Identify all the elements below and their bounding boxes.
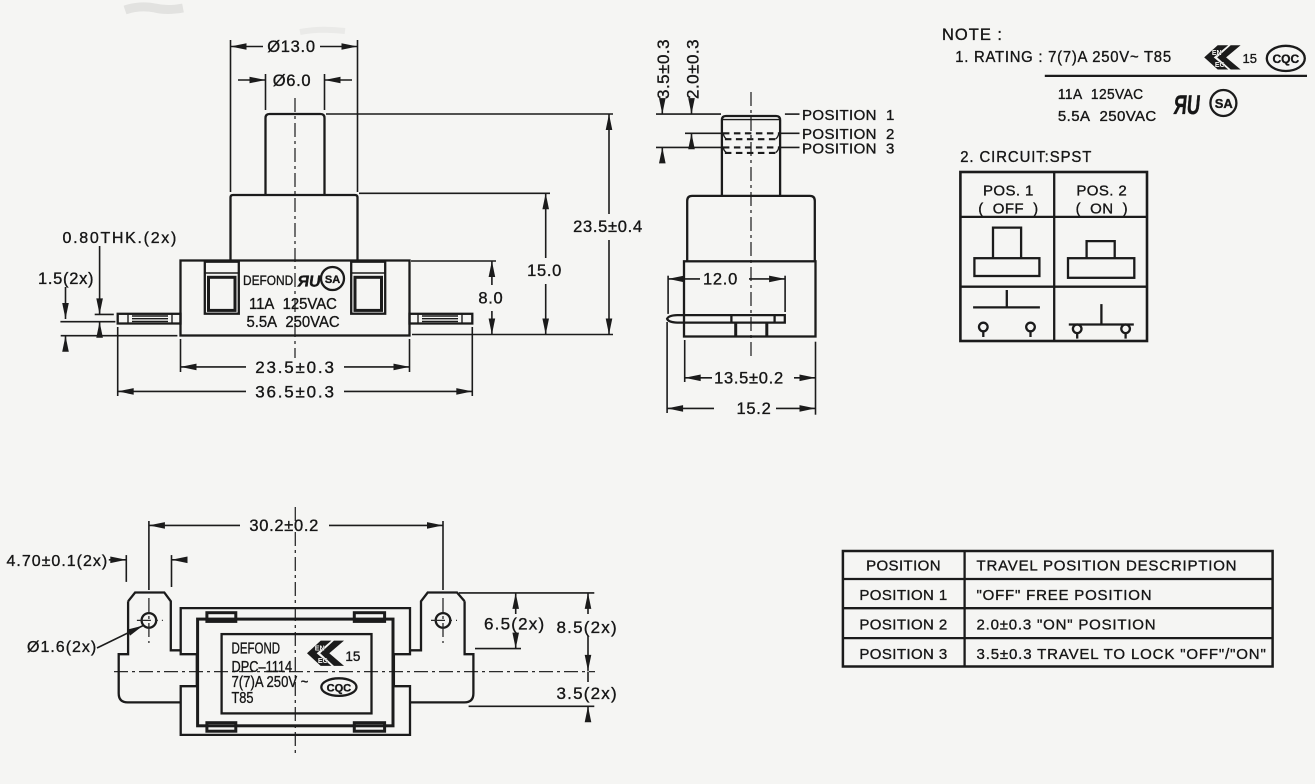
svg-text:3.5±0.3 TRAVEL TO LOCK "OFF"/": 3.5±0.3 TRAVEL TO LOCK "OFF"/"ON": [977, 646, 1267, 663]
dimension 12.0: [668, 270, 785, 314]
button up symbol: [974, 228, 1039, 276]
svg-text:TRAVEL POSITION DESCRIPTION: TRAVEL POSITION DESCRIPTION: [977, 558, 1238, 575]
svg-text:1. RATING : 7(7)A 250V~ T85: 1. RATING : 7(7)A 250V~ T85: [955, 49, 1172, 67]
bottom tab right: [354, 723, 384, 732]
right terminal front: [410, 314, 473, 324]
SIDE VIEW: [654, 39, 895, 418]
dimension 2.0+-0.3 vertical: [684, 39, 703, 147]
svg-text:( OFF ): ( OFF ): [978, 201, 1038, 218]
circuit table frame: [960, 172, 1147, 341]
label text DPC-1114: [232, 659, 293, 677]
desc header row: [866, 558, 1237, 575]
svg-text:36.5±0.3: 36.5±0.3: [255, 383, 335, 402]
svg-text:ЯU: ЯU: [1172, 90, 1201, 120]
label text rating: [232, 674, 309, 691]
rating line: [955, 49, 1172, 67]
svg-text:CQC: CQC: [1272, 52, 1299, 66]
label POSITION 1: [785, 107, 895, 124]
plunger side: [722, 116, 780, 196]
button down symbol: [1068, 241, 1134, 278]
svg-text:11A 125VAC: 11A 125VAC: [1058, 87, 1144, 104]
label plate: [222, 634, 372, 713]
desc row 2: [859, 617, 1156, 634]
bottom inner frame: [198, 619, 393, 726]
BOTTOM VIEW: [7, 507, 618, 753]
svg-text:( ON ): ( ON ): [1076, 201, 1128, 218]
collar front: [231, 195, 358, 261]
position2 groove: [723, 133, 779, 139]
dimension 8.0: [411, 261, 503, 335]
svg-text:0.80THK.(2x): 0.80THK.(2x): [63, 230, 179, 247]
body front: [181, 261, 410, 336]
svg-text:3.5±0.3: 3.5±0.3: [654, 39, 673, 99]
right mounting hole: [431, 598, 457, 643]
svg-text:8.5(2x): 8.5(2x): [557, 618, 618, 637]
dimension 3.5+-0.3 vertical: [654, 39, 673, 161]
desc row 3: [859, 646, 1266, 663]
dimension 23.5+-0.4: [326, 114, 643, 335]
svg-text:7(7)A 250V ~: 7(7)A 250V ~: [232, 674, 309, 691]
body side: [684, 261, 816, 336]
svg-text:2.0±0.3 "ON" POSITION: 2.0±0.3 "ON" POSITION: [977, 617, 1157, 634]
desc row 1: [859, 587, 1152, 604]
dimension 36.5+-0.3: [118, 327, 473, 402]
rating 11A: [1058, 87, 1144, 104]
dimension 1.5: [38, 270, 177, 351]
dimension 23.5+-0.3: [181, 339, 410, 377]
centerline front: [294, 98, 296, 358]
circuit closed symbol: [1069, 304, 1134, 339]
rating 5.5A: [1058, 108, 1157, 125]
position3 groove: [723, 147, 779, 153]
left terminal front: [118, 314, 181, 324]
svg-text:"OFF" FREE POSITION: "OFF" FREE POSITION: [977, 587, 1153, 604]
rating underline: [1045, 75, 1307, 77]
15 suffix note: [1243, 51, 1257, 66]
header POS.2: [1076, 183, 1128, 218]
desc table frame: [843, 551, 1273, 667]
svg-text:8.0: 8.0: [478, 290, 503, 308]
CQC logo note: [1267, 46, 1305, 71]
dimension hole dia: [27, 626, 143, 656]
circuit open symbol: [973, 290, 1040, 337]
label text DEFOND: [232, 639, 281, 657]
UL logo front: [296, 273, 322, 291]
header POS.1: [978, 183, 1038, 218]
svg-text:POS. 1: POS. 1: [983, 183, 1034, 200]
svg-text:2. CIRCUIT:SPST: 2. CIRCUIT:SPST: [960, 149, 1092, 167]
dimension 30.2+-0.2: [149, 517, 443, 590]
dimension 4.70: [7, 553, 188, 587]
svg-text:POS. 2: POS. 2: [1076, 183, 1127, 200]
extension lines positions: [656, 114, 722, 147]
svg-text:5.5A 250VAC: 5.5A 250VAC: [1058, 108, 1157, 125]
ENEC logo note: [1204, 45, 1240, 69]
svg-text:3.5(2x): 3.5(2x): [557, 684, 618, 703]
dimension 6.5: [459, 593, 594, 649]
CQC logo bottom: [321, 678, 356, 696]
dimension 3.5: [469, 672, 618, 718]
CIRCUIT TABLE: [960, 172, 1147, 341]
svg-text:15: 15: [1243, 51, 1257, 66]
svg-text:POSITION 3: POSITION 3: [859, 646, 947, 663]
svg-text:NOTE :: NOTE :: [942, 26, 1003, 44]
label POSITION 3: [781, 140, 895, 157]
horizontal centerline bottom view: [114, 671, 595, 673]
label POSITION 2: [781, 126, 895, 143]
svg-text:T85: T85: [232, 690, 254, 708]
svg-text:DEFOND: DEFOND: [232, 639, 281, 657]
svg-text:POSITION 2: POSITION 2: [859, 617, 947, 634]
ENEC logo bottom: [307, 641, 344, 666]
circuit heading: [960, 149, 1092, 167]
svg-text:5.5A 250VAC: 5.5A 250VAC: [247, 314, 340, 332]
right mounting bracket: [410, 593, 473, 703]
FRONT VIEW: [38, 38, 643, 402]
svg-text:15.2: 15.2: [737, 400, 772, 418]
left mounting bracket: [119, 593, 181, 703]
svg-text:23.5±0.4: 23.5±0.4: [573, 218, 643, 236]
svg-text:ЯU: ЯU: [296, 273, 322, 291]
dimension 0.80THK: [60, 230, 178, 336]
collar side: [687, 196, 815, 261]
bottom tab left: [207, 723, 236, 732]
dimension D13.0: [231, 38, 358, 192]
dimension 15.2: [667, 322, 815, 418]
top tab right: [354, 613, 384, 622]
svg-text:POSITION: POSITION: [866, 558, 941, 575]
scan smudge top-left: [125, 7, 345, 32]
top tab left: [207, 613, 236, 622]
svg-text:POSITION 1: POSITION 1: [802, 107, 895, 124]
svg-text:Ø1.6(2x): Ø1.6(2x): [27, 639, 97, 656]
svg-text:12.0: 12.0: [703, 270, 738, 288]
svg-text:POSITION 3: POSITION 3: [802, 140, 895, 157]
UL logo note: [1172, 90, 1201, 120]
rating text front 11A: [249, 296, 337, 314]
CSA logo front: [321, 267, 344, 290]
svg-text:15: 15: [345, 649, 360, 664]
left contact window: [205, 262, 239, 314]
dimension 8.5: [557, 593, 618, 671]
svg-text:15.0: 15.0: [527, 262, 562, 280]
left mounting hole: [137, 598, 163, 643]
vertical centerline bottom view: [294, 507, 296, 753]
svg-text:1.5(2x): 1.5(2x): [38, 270, 94, 288]
svg-text:6.5(2x): 6.5(2x): [484, 615, 545, 634]
dimension 13.5+-0.2: [685, 340, 816, 415]
dimension D6.0: [238, 72, 352, 110]
terminal bracket side: [736, 323, 767, 337]
15 suffix bottom: [345, 649, 360, 664]
label text T85: [232, 690, 254, 708]
DESC TABLE: [843, 551, 1273, 667]
svg-text:Ø6.0: Ø6.0: [273, 72, 312, 90]
svg-text:30.2±0.2: 30.2±0.2: [249, 517, 319, 535]
label DEFOND front: [243, 272, 293, 288]
plunger front: [266, 114, 325, 195]
terminal side: [667, 315, 785, 323]
svg-text:DEFOND: DEFOND: [243, 272, 293, 288]
svg-text:23.5±0.3: 23.5±0.3: [255, 358, 335, 377]
svg-text:SA: SA: [325, 274, 340, 286]
svg-text:Ø13.0: Ø13.0: [267, 38, 315, 56]
svg-text:SA: SA: [1215, 96, 1234, 111]
svg-text:POSITION 1: POSITION 1: [859, 587, 947, 604]
dimension 15.0: [359, 193, 562, 334]
bottom body outline: [181, 608, 410, 735]
right contact window: [351, 262, 385, 314]
rating text front 5.5A: [247, 314, 340, 332]
svg-text:13.5±0.2: 13.5±0.2: [714, 369, 784, 387]
note heading: [942, 26, 1003, 44]
centerline side: [750, 92, 752, 356]
svg-text:4.70±0.1(2x): 4.70±0.1(2x): [7, 553, 109, 570]
svg-text:2.0±0.3: 2.0±0.3: [684, 39, 703, 99]
svg-text:11A 125VAC: 11A 125VAC: [249, 296, 337, 314]
svg-text:CQC: CQC: [327, 682, 352, 694]
CSA logo note: [1210, 90, 1236, 116]
NOTE: [942, 26, 1307, 166]
